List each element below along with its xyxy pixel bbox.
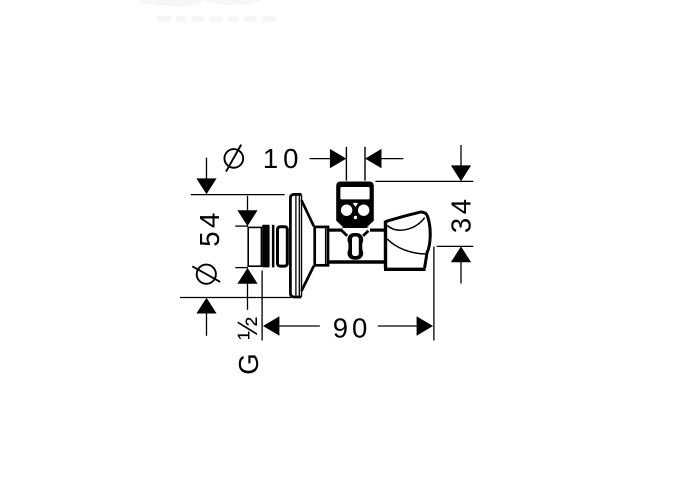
handle block circle right (358, 205, 369, 216)
svg-text:90: 90 (333, 312, 372, 343)
label Ø of Ø10 (224, 145, 243, 172)
thread thin bar (272, 225, 275, 268)
handle block circle left (341, 205, 352, 216)
reference line Ø54 bottom (bell bottom) (180, 297, 291, 299)
knob top edge (386, 212, 420, 221)
reference line thread bottom (235, 267, 248, 269)
bell cone bottom edge (302, 266, 314, 291)
handle block dot (354, 216, 357, 219)
valve body top line right (370, 229, 385, 232)
reference line 34 bottom (437, 245, 474, 247)
arrow Ø10 left (points right) (330, 149, 346, 168)
arrow 34 top (points down) (451, 165, 471, 181)
dimension Ø54 vertical line top (206, 158, 208, 180)
knob bottom edge (384, 268, 426, 271)
knob inner arc lower (387, 239, 425, 254)
faint cropped watermark top-left (140, 0, 276, 22)
label Ø of Ø54 rotated (192, 265, 220, 284)
arrow Ø10 right (points left) (365, 149, 381, 168)
arrow G1/2 top (points down) (237, 210, 257, 226)
dimension G1/2 vertical line bottom (247, 283, 249, 310)
bell escutcheon rim (290, 194, 301, 297)
reference line 34 top (376, 180, 474, 182)
dimension Ø54 vertical line bottom (206, 312, 208, 336)
arrow Ø54 top (points down) (196, 178, 216, 194)
funnel diagonal right (363, 231, 368, 236)
knob inner arc upper (387, 218, 425, 231)
funnel diagonal left (342, 231, 347, 236)
extension line Ø10 left (345, 147, 347, 181)
reference line Ø54 top (bell top) (191, 194, 285, 196)
reference line thread top (235, 225, 248, 227)
dimension G1/2 vertical line top (247, 196, 249, 212)
extension line 90 right (433, 247, 435, 341)
dimension 34 vertical line bottom (460, 261, 462, 284)
dimension 34 vertical line top (460, 145, 462, 167)
arrow 90 right (points right) (417, 316, 433, 335)
handle block white window (340, 187, 369, 199)
valve body bottom line (329, 260, 385, 264)
bell rim inner line (295, 196, 297, 296)
thread black band (262, 225, 269, 268)
svg-text:10: 10 (263, 143, 304, 174)
bell rim right line 1 (298, 195, 300, 297)
bell rim right line 2 (301, 194, 303, 297)
stem slot ring (348, 233, 364, 260)
stem slot waist nibble right (362, 240, 365, 252)
arrow 34 bottom (points up) (451, 246, 471, 262)
arrow G1/2 bottom (points up) (237, 268, 257, 284)
extension line 90 left (261, 271, 263, 341)
svg-text:G: G (233, 353, 264, 374)
dimension line Ø10 horizontal (310, 158, 404, 160)
arrow 90 left (points left) (263, 316, 279, 335)
extension line Ø10 right (364, 147, 366, 181)
neck ring inner line (325, 229, 327, 265)
neck ring (315, 227, 328, 265)
thread outer ring (278, 227, 288, 266)
knob left bar (384, 221, 387, 268)
svg-text:34: 34 (446, 196, 477, 234)
svg-text:½: ½ (232, 317, 263, 340)
stem slot waist nibble left (345, 240, 348, 252)
valve body top line left (329, 229, 343, 232)
svg-text:54: 54 (194, 209, 225, 247)
handle block body (black mass) (336, 182, 374, 229)
thread end cap (248, 227, 261, 266)
handle block wedge (353, 203, 358, 207)
arrow Ø54 bottom (points up) (196, 298, 216, 314)
dimension line 90 horizontal (278, 325, 418, 327)
bell cone top edge (302, 200, 314, 226)
knob right edge (420, 212, 431, 268)
